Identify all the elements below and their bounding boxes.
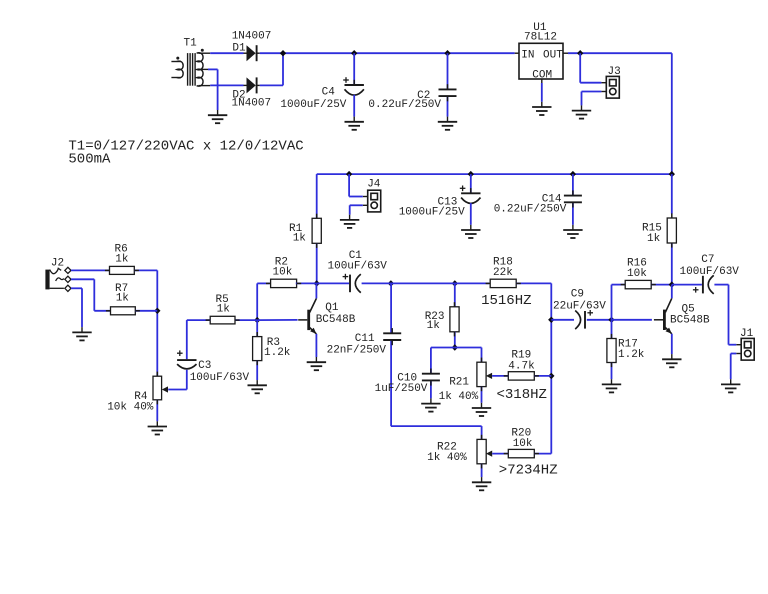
svg-text:100uF/63V: 100uF/63V (328, 261, 388, 273)
svg-text:C7: C7 (701, 254, 714, 266)
svg-text:1k: 1k (116, 292, 130, 304)
svg-text:500mA: 500mA (68, 151, 111, 167)
svg-text:D1: D1 (232, 42, 246, 54)
svg-text:10k: 10k (513, 438, 533, 450)
svg-text:100uF/63V: 100uF/63V (190, 372, 250, 384)
svg-text:1k: 1k (293, 232, 307, 244)
svg-text:C9: C9 (571, 289, 584, 301)
svg-text:IN: IN (521, 50, 534, 62)
svg-text:J2: J2 (51, 258, 64, 270)
svg-text:10k: 10k (273, 267, 293, 279)
svg-text:1k: 1k (115, 254, 129, 266)
svg-text:22k: 22k (493, 267, 513, 279)
svg-text:BC548B: BC548B (670, 314, 710, 326)
svg-text:1k 40%: 1k 40% (439, 391, 479, 403)
svg-text:10k: 10k (627, 268, 647, 280)
svg-text:BC548B: BC548B (316, 314, 356, 326)
svg-text:0.22uF/250V: 0.22uF/250V (494, 204, 567, 216)
svg-text:J4: J4 (367, 179, 381, 191)
svg-text:10k 40%: 10k 40% (107, 402, 154, 414)
svg-text:100uF/63V: 100uF/63V (680, 266, 740, 278)
svg-text:1N4007: 1N4007 (232, 98, 272, 110)
svg-text:C4: C4 (322, 87, 336, 99)
svg-text:C11: C11 (355, 333, 375, 345)
svg-text:1k: 1k (427, 320, 441, 332)
svg-text:R21: R21 (449, 377, 469, 389)
svg-text:1k: 1k (217, 303, 231, 315)
svg-text:4.7k: 4.7k (508, 360, 535, 372)
svg-text:22uF/63V: 22uF/63V (553, 300, 606, 312)
svg-text:1.2k: 1.2k (618, 349, 645, 361)
svg-text:1516HZ: 1516HZ (481, 293, 531, 309)
svg-text:OUT: OUT (543, 50, 563, 62)
svg-text:J1: J1 (740, 328, 754, 340)
svg-text:22nF/250V: 22nF/250V (327, 344, 387, 356)
svg-text:1k: 1k (647, 233, 661, 245)
svg-text:T1: T1 (184, 37, 198, 49)
svg-text:Q1: Q1 (325, 302, 339, 314)
svg-text:1000uF/25V: 1000uF/25V (280, 99, 346, 111)
svg-text:C3: C3 (198, 360, 211, 372)
svg-text:1.2k: 1.2k (264, 347, 291, 359)
svg-text:1uF/250V: 1uF/250V (375, 383, 428, 395)
svg-text:0.22uF/250V: 0.22uF/250V (368, 99, 441, 111)
svg-text:78L12: 78L12 (524, 32, 557, 44)
svg-text:1000uF/25V: 1000uF/25V (399, 207, 465, 219)
svg-text:1k 40%: 1k 40% (427, 452, 467, 464)
svg-text:<318HZ: <318HZ (497, 387, 547, 403)
svg-text:1N4007: 1N4007 (232, 30, 272, 42)
svg-text:>7234HZ: >7234HZ (499, 462, 558, 478)
svg-text:J3: J3 (608, 66, 621, 78)
